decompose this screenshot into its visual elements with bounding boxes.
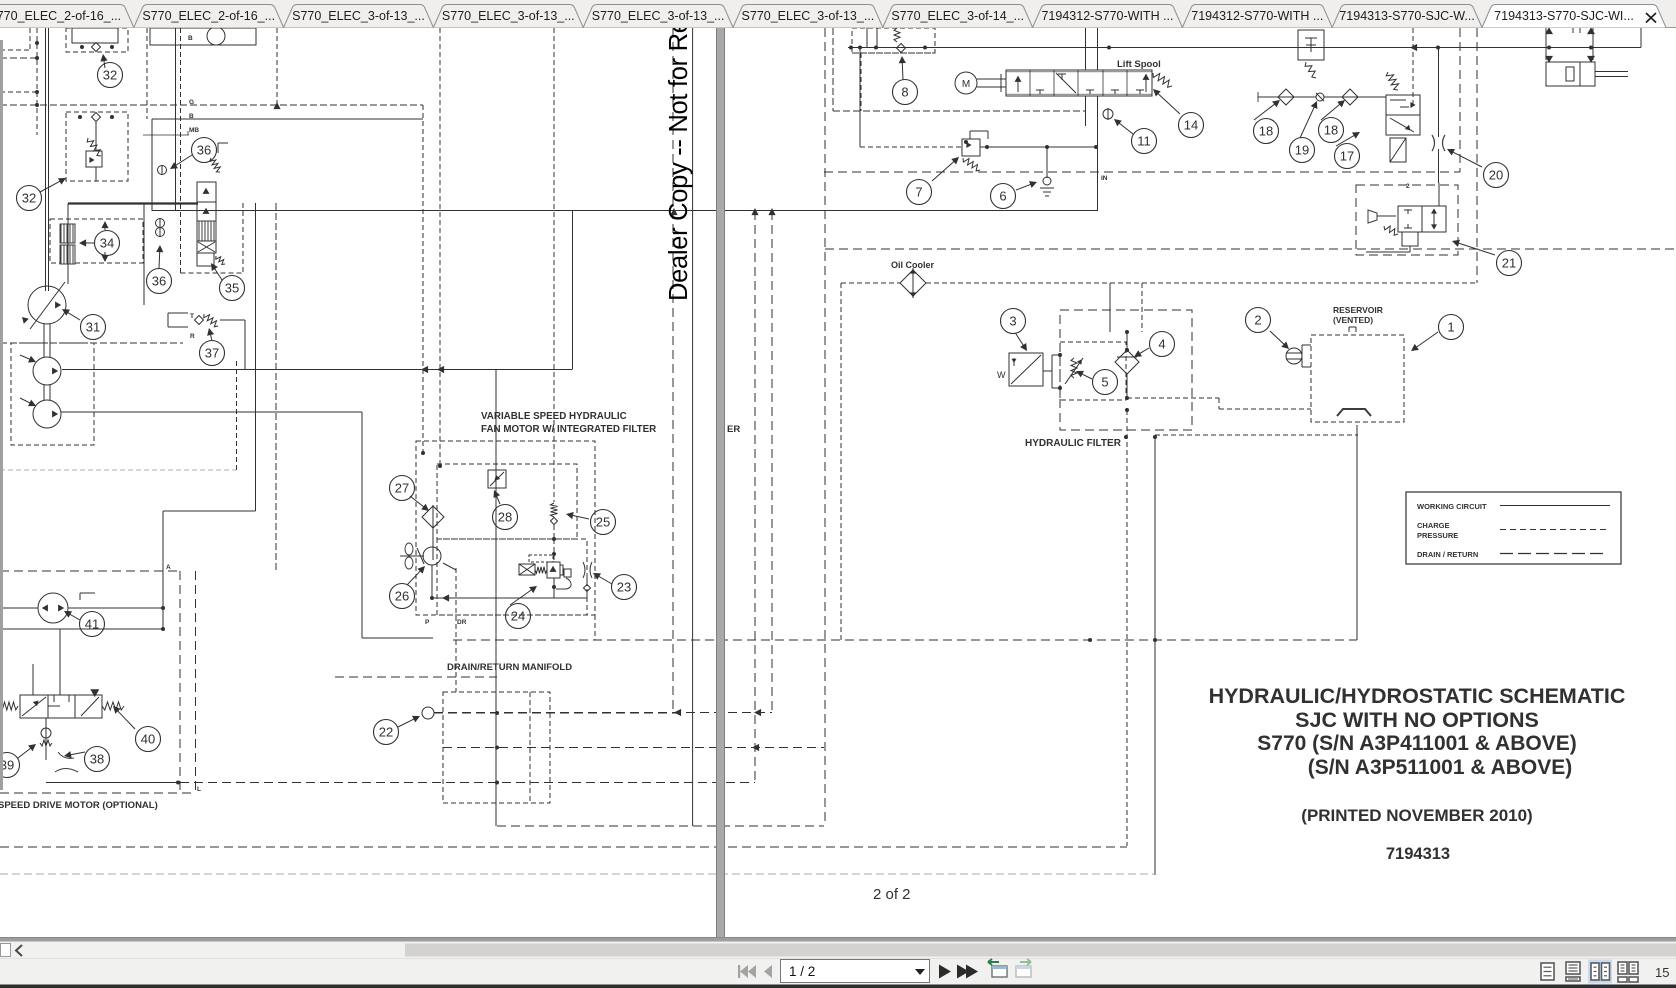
svg-text:770_ELEC_2-of-16_...: 770_ELEC_2-of-16_...	[0, 9, 121, 23]
svg-text:R: R	[190, 333, 195, 340]
svg-text:Dealer Copy -- Not for Re: Dealer Copy -- Not for Re	[665, 19, 693, 301]
svg-text:A: A	[166, 564, 171, 571]
svg-text:40: 40	[141, 732, 155, 747]
svg-text:14: 14	[1184, 118, 1198, 133]
svg-text:S770_ELEC_3-of-13_...: S770_ELEC_3-of-13_...	[742, 9, 875, 23]
svg-text:36: 36	[197, 143, 211, 158]
svg-text:36: 36	[152, 274, 166, 289]
svg-text:M: M	[962, 79, 970, 90]
svg-text:(PRINTED NOVEMBER 2010): (PRINTED NOVEMBER 2010)	[1301, 806, 1532, 825]
svg-text:2: 2	[1254, 313, 1261, 328]
svg-text:DR: DR	[457, 619, 467, 626]
svg-text:34: 34	[100, 236, 114, 251]
svg-text:S770_ELEC_3-of-14_...: S770_ELEC_3-of-14_...	[891, 9, 1024, 23]
svg-text:1: 1	[1447, 320, 1454, 335]
svg-text:S770_ELEC_3-of-13_...: S770_ELEC_3-of-13_...	[292, 9, 425, 23]
svg-text:18: 18	[1259, 124, 1273, 139]
svg-text:1 / 2: 1 / 2	[789, 964, 815, 979]
svg-text:L: L	[197, 786, 201, 793]
svg-text:WORKING CIRCUIT: WORKING CIRCUIT	[1417, 502, 1487, 511]
svg-text:B: B	[189, 113, 194, 120]
svg-text:W: W	[997, 370, 1006, 380]
svg-text:S770_ELEC_2-of-16_...: S770_ELEC_2-of-16_...	[142, 9, 275, 23]
svg-text:FAN MOTOR W/ INTEGRATED FILTER: FAN MOTOR W/ INTEGRATED FILTER	[481, 424, 656, 435]
svg-text:4: 4	[1158, 337, 1165, 352]
svg-text:21: 21	[1502, 256, 1516, 271]
svg-text:11: 11	[1137, 134, 1151, 149]
svg-text:DRAIN/RETURN MANIFOLD: DRAIN/RETURN MANIFOLD	[447, 662, 572, 673]
svg-text:7194312-S770-WITH ...: 7194312-S770-WITH ...	[1191, 9, 1323, 23]
svg-text:S770_ELEC_3-of-13_...: S770_ELEC_3-of-13_...	[442, 9, 575, 23]
svg-text:19: 19	[1295, 143, 1309, 158]
svg-text:23: 23	[617, 580, 631, 595]
svg-text:DRAIN / RETURN: DRAIN / RETURN	[1417, 550, 1478, 559]
svg-text:7: 7	[915, 185, 922, 200]
svg-text:PRESSURE: PRESSURE	[1417, 531, 1458, 540]
svg-text:35: 35	[225, 281, 239, 296]
svg-text:B: B	[188, 35, 193, 42]
svg-text:CHARGE: CHARGE	[1417, 521, 1450, 530]
svg-text:18: 18	[1324, 123, 1338, 138]
svg-text:MB: MB	[189, 127, 199, 134]
svg-text:S770_ELEC_3-of-13_...: S770_ELEC_3-of-13_...	[592, 9, 725, 23]
svg-text:S770 (S/N A3P411001 & ABOVE): S770 (S/N A3P411001 & ABOVE)	[1257, 732, 1576, 755]
svg-text:SJC WITH NO OPTIONS: SJC WITH NO OPTIONS	[1295, 708, 1539, 732]
svg-text:2 of 2: 2 of 2	[873, 886, 911, 903]
svg-text:32: 32	[22, 191, 36, 206]
svg-text:(S/N A3P511001 & ABOVE): (S/N A3P511001 & ABOVE)	[1308, 756, 1573, 779]
svg-text:RESERVOIR: RESERVOIR	[1333, 305, 1383, 315]
svg-text:ER: ER	[727, 424, 740, 435]
svg-text:HYDRAULIC/HYDROSTATIC SCHEMATI: HYDRAULIC/HYDROSTATIC SCHEMATIC	[1209, 684, 1626, 708]
svg-text:41: 41	[85, 617, 99, 632]
svg-text:25: 25	[596, 515, 610, 530]
svg-text:T: T	[190, 313, 194, 320]
svg-text:20: 20	[1489, 168, 1503, 183]
svg-text:38: 38	[90, 752, 104, 767]
svg-text:26: 26	[395, 589, 409, 604]
svg-text:3: 3	[1009, 314, 1016, 329]
svg-text:27: 27	[395, 481, 409, 496]
svg-text:IN: IN	[1101, 175, 1108, 182]
svg-text:G: G	[189, 99, 194, 106]
svg-text:32: 32	[103, 68, 117, 83]
svg-text:37: 37	[205, 346, 219, 361]
svg-text:7194312-S770-WITH ...: 7194312-S770-WITH ...	[1041, 9, 1173, 23]
svg-text:7194313-S770-SJC-W...: 7194313-S770-SJC-W...	[1339, 9, 1475, 23]
svg-text:2: 2	[1406, 183, 1410, 190]
svg-text:HYDRAULIC FILTER: HYDRAULIC FILTER	[1025, 438, 1122, 449]
svg-text:5: 5	[1101, 375, 1108, 390]
svg-text:SPEED DRIVE MOTOR (OPTIONAL): SPEED DRIVE MOTOR (OPTIONAL)	[0, 800, 158, 811]
svg-text:24: 24	[511, 609, 525, 624]
svg-text:17: 17	[1340, 149, 1354, 164]
svg-text:15: 15	[1655, 965, 1669, 980]
svg-text:22: 22	[379, 725, 393, 740]
svg-text:7194313-S770-SJC-WI...: 7194313-S770-SJC-WI...	[1494, 9, 1634, 23]
svg-text:7194313: 7194313	[1386, 845, 1450, 863]
svg-text:Lift Spool: Lift Spool	[1117, 59, 1161, 70]
svg-text:31: 31	[86, 320, 100, 335]
svg-text:8: 8	[901, 85, 908, 100]
svg-text:28: 28	[498, 510, 512, 525]
svg-text:(VENTED): (VENTED)	[1333, 315, 1373, 325]
svg-text:6: 6	[999, 189, 1006, 204]
svg-text:P: P	[425, 619, 430, 626]
